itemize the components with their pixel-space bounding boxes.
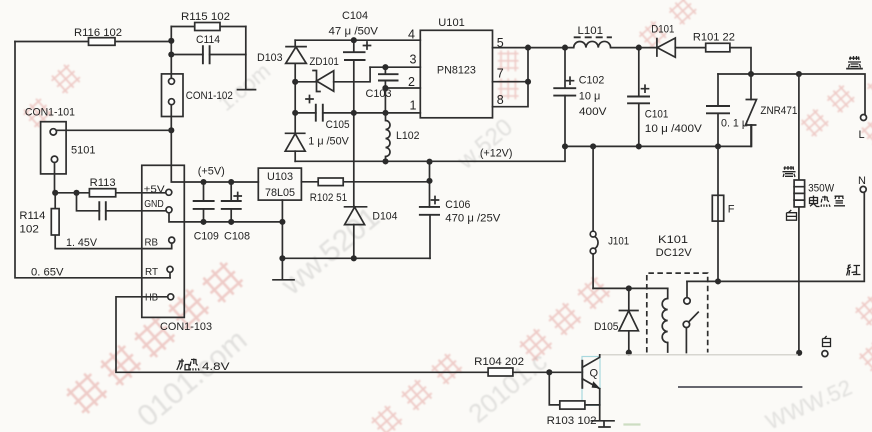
wire R115/C114 right side down to terminal bar (238, 27, 256, 90)
capacitor C104 (329, 10, 379, 113)
connector CON1-102 (162, 74, 233, 117)
svg-text:2: 2 (408, 75, 415, 89)
node junction pin7 tie (525, 79, 531, 85)
transistor Q (582, 355, 600, 405)
node junction J101 branch (590, 143, 596, 149)
node junction GND rail / U103 (279, 219, 285, 225)
svg-text:D101: D101 (651, 24, 674, 36)
resistor R102 (301, 178, 429, 204)
svg-text:R116 102: R116 102 (74, 27, 122, 39)
svg-text:C108: C108 (224, 231, 250, 243)
capacitor (GND coupling, unlabeled) (77, 193, 167, 221)
svg-text:C114: C114 (196, 34, 220, 46)
svg-text:0. 1 μ: 0. 1 μ (721, 118, 748, 130)
wire faint erased rail (600, 354, 798, 356)
node junction C104 / pin4 line (351, 37, 357, 43)
svg-text:U103: U103 (267, 171, 293, 183)
node junction C102 bottom / +12V feed (562, 143, 568, 149)
svg-text:1 μ /50V: 1 μ /50V (308, 136, 349, 148)
svg-text:5101: 5101 (71, 145, 96, 157)
wire pin3 line (370, 66, 420, 68)
regulator U103 78L05 (258, 168, 301, 200)
svg-text:D103: D103 (257, 52, 283, 64)
svg-text:F: F (728, 204, 735, 216)
connector CON1-103 (142, 165, 212, 333)
svg-text:ZD101: ZD101 (309, 56, 339, 68)
node junction D105 branch (626, 285, 632, 291)
IC U101 PN8123 (420, 17, 492, 118)
svg-text:L101: L101 (578, 25, 604, 37)
node junction R103 / base (546, 369, 552, 375)
resistor R101 (693, 32, 751, 75)
svg-text:L102: L102 (396, 130, 420, 142)
wire pin7 line (493, 81, 529, 83)
svg-text:CON1-101: CON1-101 (25, 107, 75, 119)
wire lower DC rail (565, 125, 752, 146)
resistor R114 (19, 193, 171, 249)
svg-text:R115 102: R115 102 (181, 11, 230, 23)
capacitor C114 (171, 34, 246, 64)
wire GND pin down to ground rail (169, 213, 282, 222)
svg-text:C102: C102 (579, 75, 605, 87)
node terminal dot D105 bottom (626, 350, 632, 356)
wire HB pin to heater drive line (116, 297, 488, 373)
svg-text:4.8V: 4.8V (202, 361, 230, 373)
label heater 4.8V (177, 359, 230, 374)
svg-text:(+12V): (+12V) (480, 148, 513, 160)
capacitor C103 (366, 67, 399, 113)
svg-text:GND: GND (144, 198, 164, 210)
svg-text:47 μ /50V: 47 μ /50V (329, 26, 379, 38)
node junction C101 top (636, 45, 642, 51)
node terminal dot heater bottom (796, 350, 802, 356)
node junction C103 bottom / pin2 line (382, 85, 388, 91)
capacitor C101 (627, 48, 702, 147)
svg-text:D104: D104 (372, 211, 397, 223)
terminal L (859, 115, 867, 142)
svg-text:D105: D105 (594, 321, 619, 333)
wire main vertical bus (R115/C114 left, CON1-102, down to +5V rail) (171, 27, 258, 183)
wire CON1-101 pin2 down to R113 node (54, 163, 56, 193)
svg-text:R114: R114 (19, 210, 45, 222)
svg-text:Q: Q (590, 368, 599, 380)
wire pin8 line and tie vertical (493, 48, 529, 107)
capacitor 0.1u (706, 74, 748, 146)
label white wire (heater bottom) (787, 210, 797, 220)
svg-text:C105: C105 (326, 119, 350, 131)
svg-text:+5V: +5V (144, 184, 165, 196)
capacitor C106 (419, 162, 501, 259)
node junction R114 top (52, 190, 58, 196)
node junction R101 / rail (748, 71, 754, 77)
wire pin5 line (493, 47, 574, 49)
label blue wire (heater top) (783, 166, 796, 177)
heater element 350W (794, 180, 835, 207)
wire pin1 line (295, 112, 420, 114)
node junction CON1-101 pin1 wire (168, 127, 174, 133)
svg-text:K101: K101 (658, 234, 688, 246)
svg-text:R101 22: R101 22 (693, 32, 735, 44)
node junction +12V rail / C106 (426, 159, 432, 165)
capacitor C108 (221, 182, 250, 243)
node junction pin5 tie (525, 45, 531, 51)
diode D101 (651, 24, 705, 58)
node junction C114/vertical (168, 51, 174, 57)
label red wire (847, 265, 861, 276)
svg-text:J101: J101 (608, 236, 629, 248)
wire stray line (bottom) (678, 386, 802, 388)
connector CON1-101 (25, 107, 96, 174)
svg-text:L: L (859, 129, 865, 141)
node junction C105 left / pin1 line (292, 110, 298, 116)
node junction C103 / pin3 line (382, 64, 388, 70)
svg-text:102: 102 (19, 224, 39, 236)
svg-text:1. 45V: 1. 45V (66, 237, 98, 249)
node junctions C109 (200, 179, 206, 185)
svg-text:78L05: 78L05 (265, 187, 295, 199)
svg-text:C106: C106 (445, 199, 470, 211)
svg-text:R102 51: R102 51 (310, 192, 348, 204)
jumper J101 (590, 146, 629, 288)
node junction C104 bottom / C105 right / D104 branch (351, 110, 357, 116)
inductor L102 (386, 113, 420, 161)
wire CON1-101 pin1 to vertical bus (57, 129, 172, 131)
node junction L102 bottom (382, 158, 388, 164)
svg-text:0. 65V: 0. 65V (31, 267, 64, 279)
wire pin4 top line (295, 39, 420, 41)
svg-text:350W: 350W (808, 183, 835, 195)
resistor R115 (171, 11, 246, 31)
label blue wire (top right) (847, 56, 862, 69)
svg-text:7: 7 (497, 67, 504, 81)
diode D103 (257, 40, 307, 133)
svg-text:1: 1 (410, 98, 417, 112)
resistor R103 (547, 372, 600, 427)
svg-text:N: N (858, 175, 866, 187)
relay coil (662, 288, 667, 352)
capacitor C105 (306, 96, 350, 148)
ground symbol (273, 258, 294, 280)
node junction D104 / ground rail (351, 255, 357, 261)
ground rail (282, 257, 430, 259)
resistor R104 (474, 356, 549, 376)
svg-text:C104: C104 (342, 10, 368, 22)
node junction C101 bottom (636, 143, 642, 149)
svg-text:10 μ: 10 μ (579, 91, 601, 103)
terminal N (858, 175, 866, 192)
wire U103 ground pin riser (281, 200, 283, 258)
svg-text:400V: 400V (579, 106, 607, 118)
svg-text:(+5V): (+5V) (198, 166, 225, 178)
svg-text:CON1-103: CON1-103 (160, 321, 212, 333)
svg-text:10 μ /400V: 10 μ /400V (645, 123, 703, 135)
wire left edge from R116 down to RT line (15, 42, 170, 278)
fuse F (712, 146, 735, 281)
svg-text:4: 4 (408, 28, 415, 42)
svg-text:470 μ /25V: 470 μ /25V (445, 213, 501, 225)
node junction ground rail left (279, 255, 285, 261)
diode D104 (344, 113, 398, 258)
node junction fuse / 0.1u (715, 143, 721, 149)
wire heater branch (798, 74, 800, 353)
wire J101 to relay coil (593, 287, 668, 289)
relay K101 dashed box (647, 234, 708, 353)
svg-text:C109: C109 (194, 231, 219, 243)
label heating plate (3 hanzi) (810, 196, 820, 207)
capacitor C109 (193, 182, 219, 243)
wire red line to N (687, 192, 864, 281)
diode (unlabeled, lower left) (285, 133, 306, 161)
wire RT pin riser (169, 273, 171, 278)
node junction C102 top (562, 45, 568, 51)
node junction ZD101 anode (292, 79, 298, 85)
node junction cap branch (73, 190, 79, 196)
svg-text:C101: C101 (645, 109, 669, 121)
wire base lead (549, 371, 582, 373)
node junction heater branch / rail (796, 71, 802, 77)
wire output top rail (718, 74, 865, 115)
node junction R102 / C106 (426, 178, 432, 184)
node junction L102 top / pin1 line (382, 110, 388, 116)
svg-text:PN8123: PN8123 (437, 65, 476, 77)
svg-text:ZNR471: ZNR471 (760, 105, 797, 117)
resistor R113 (55, 177, 166, 197)
varistor ZNR471 (746, 74, 798, 146)
capacitor C102 (553, 48, 607, 147)
svg-text:3: 3 (410, 53, 417, 67)
zener diode ZD101 (295, 56, 370, 92)
svg-text:R113: R113 (90, 177, 116, 189)
label white wire terminal (823, 336, 831, 347)
relay contact (683, 281, 698, 352)
svg-text:RB: RB (145, 237, 159, 249)
terminal white circle (822, 351, 828, 357)
svg-text:U101: U101 (438, 17, 465, 29)
ground symbol (emitter) (592, 405, 615, 427)
resistor R116 (15, 27, 171, 45)
wire +12V rail (295, 146, 565, 161)
inductor L101 (574, 25, 657, 48)
svg-text:DC12V: DC12V (656, 247, 693, 259)
svg-text:R103 102: R103 102 (547, 415, 597, 427)
diode D105 (594, 288, 639, 352)
node junction R116/vertical (168, 38, 174, 44)
wire pin2 line (385, 87, 420, 89)
svg-text:CON1-102: CON1-102 (186, 90, 233, 102)
node junctions C108 (228, 179, 234, 185)
svg-text:8: 8 (497, 93, 504, 107)
svg-text:R104 202: R104 202 (474, 356, 524, 368)
node junction fuse / red line (715, 278, 721, 284)
svg-text:RT: RT (145, 266, 159, 278)
